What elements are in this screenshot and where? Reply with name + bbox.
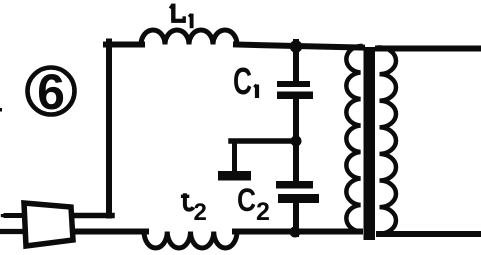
svg-text:C: C bbox=[233, 61, 252, 103]
svg-text:6: 6 bbox=[37, 64, 65, 120]
svg-text:2: 2 bbox=[194, 199, 207, 226]
svg-text:C: C bbox=[237, 182, 256, 218]
svg-text:2: 2 bbox=[256, 198, 270, 226]
